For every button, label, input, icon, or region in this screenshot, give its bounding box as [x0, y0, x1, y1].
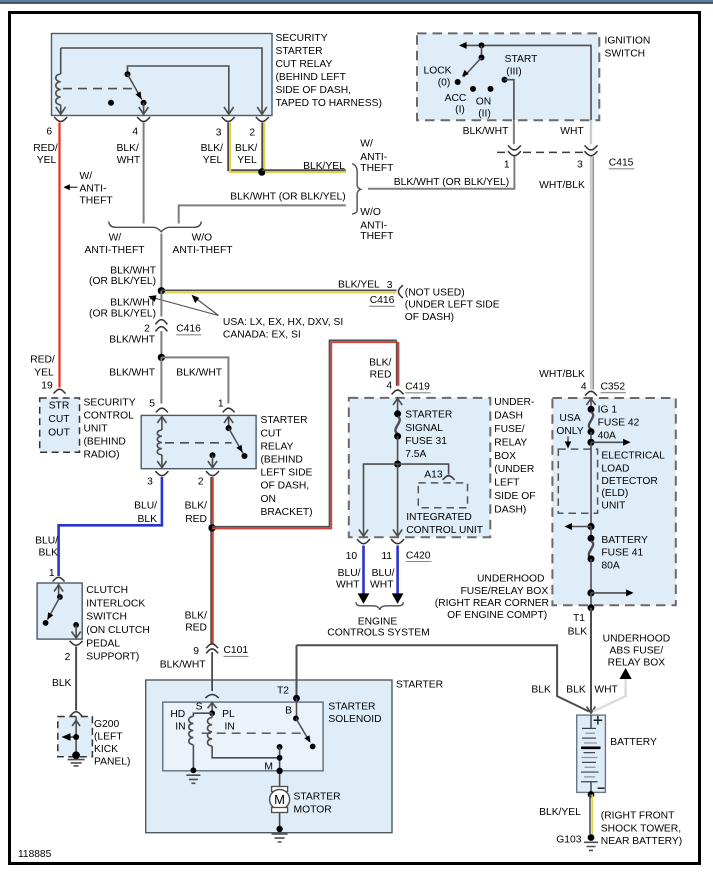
- junction dot with left arrow: [565, 523, 595, 530]
- solenoid ground: [186, 767, 200, 783]
- junction dot BLK/YEL: [258, 168, 265, 175]
- relay switch pivot dot: [125, 71, 131, 77]
- svg-text:SIGNAL: SIGNAL: [405, 423, 443, 434]
- wire BLK clutch to G200: [75, 647, 77, 711]
- svg-text:ANTI-: ANTI-: [360, 220, 387, 231]
- svg-text:FUSE 41: FUSE 41: [601, 548, 643, 559]
- solenoid S connector (dome): [205, 694, 218, 698]
- svg-text:80A: 80A: [601, 560, 619, 571]
- engine controls brace: [356, 602, 404, 610]
- svg-text:WHT: WHT: [560, 126, 584, 137]
- junction dot with right arrow 2: [587, 589, 633, 596]
- svg-text:DASH): DASH): [494, 504, 526, 515]
- svg-text:ELECTRICAL: ELECTRICAL: [601, 451, 665, 462]
- wire BLK T2 down: [296, 645, 298, 698]
- wire BLU/BLK pin3 to clutch switch: [59, 477, 162, 576]
- label W/O ANTI-THEFT (brace right): [172, 233, 233, 257]
- svg-text:C101: C101: [224, 645, 249, 656]
- svg-text:2: 2: [198, 477, 204, 488]
- svg-text:SUPPORT): SUPPORT): [86, 652, 139, 663]
- label A13: [424, 470, 443, 481]
- svg-text:PEDAL: PEDAL: [86, 638, 120, 649]
- svg-text:RED/: RED/: [33, 143, 58, 154]
- svg-text:BLK: BLK: [39, 548, 59, 559]
- svg-text:1: 1: [504, 159, 510, 170]
- starter solenoid box: [163, 702, 323, 771]
- pin number 6: [46, 127, 52, 138]
- svg-text:C416: C416: [370, 295, 395, 306]
- label RED/YEL at unit: [30, 355, 55, 379]
- wire BLK from starter to battery: [297, 645, 590, 711]
- relay2 arm end dot: [242, 453, 248, 459]
- svg-text:2: 2: [65, 652, 71, 663]
- svg-text:LOCK: LOCK: [423, 65, 451, 76]
- starter box: [146, 680, 392, 833]
- svg-text:2: 2: [144, 324, 150, 335]
- svg-text:FUSE/RELAY BOX: FUSE/RELAY BOX: [460, 586, 548, 597]
- svg-text:19: 19: [41, 381, 53, 392]
- svg-text:INTEGRATED: INTEGRATED: [406, 512, 472, 523]
- svg-text:A13: A13: [424, 470, 443, 481]
- label ON (II): [476, 97, 491, 120]
- svg-text:(BEHIND: (BEHIND: [261, 455, 303, 466]
- pin number 19: [41, 381, 53, 392]
- svg-text:M: M: [274, 792, 285, 807]
- M wire down: [279, 747, 281, 789]
- svg-text:(BEHIND: (BEHIND: [84, 437, 126, 448]
- M junction dot: [277, 755, 283, 761]
- pin number 1 clutch: [49, 568, 55, 579]
- svg-text:IG 1: IG 1: [598, 404, 618, 415]
- label BLU/BLK vertical: [35, 536, 58, 559]
- ignition junction dot top: [479, 42, 485, 48]
- svg-text:SECURITY: SECURITY: [276, 33, 328, 44]
- svg-text:PL: PL: [222, 709, 235, 720]
- pin 3 connector: [222, 117, 235, 122]
- svg-text:ON: ON: [476, 97, 491, 108]
- svg-text:5: 5: [149, 398, 155, 409]
- svg-text:ENGINE: ENGINE: [358, 616, 398, 627]
- svg-text:THEFT: THEFT: [360, 163, 394, 174]
- svg-text:NEAR BATTERY): NEAR BATTERY): [601, 836, 682, 847]
- battery negative terminal dot: [588, 791, 595, 798]
- svg-text:BLK/WHT: BLK/WHT: [109, 334, 155, 345]
- label C415 underlined: [609, 158, 635, 169]
- contact dot LOCK: [455, 79, 461, 85]
- svg-text:WHT/BLK: WHT/BLK: [539, 369, 585, 380]
- svg-text:STARTER: STARTER: [396, 680, 443, 691]
- label WHT/BLK lower: [539, 369, 585, 380]
- svg-text:W/: W/: [109, 233, 122, 244]
- label C420 underlined: [406, 551, 432, 562]
- svg-text:BLK/YEL: BLK/YEL: [539, 807, 581, 818]
- wire RED/YEL pin6 down: [58, 123, 60, 388]
- label STARTER SOLENOID: [328, 701, 381, 725]
- svg-text:LOAD: LOAD: [601, 463, 629, 474]
- svg-text:BLK/WHT: BLK/WHT: [160, 660, 206, 671]
- svg-text:BLU/: BLU/: [134, 501, 157, 512]
- pin number 2 C416: [144, 324, 150, 335]
- CLUTCH INTERLOCK SWITCH label: [86, 585, 150, 663]
- svg-text:G103: G103: [556, 834, 581, 845]
- relay coil (pin 6 branch): [56, 48, 66, 114]
- svg-text:USA: USA: [559, 413, 580, 424]
- STR CUT OUT text: [48, 401, 70, 439]
- svg-text:WHT: WHT: [336, 580, 360, 591]
- svg-text:ANTI-THEFT: ANTI-THEFT: [172, 245, 233, 256]
- svg-text:C416: C416: [176, 324, 201, 335]
- label BLK/YEL battery: [539, 807, 581, 818]
- label WHT/BLK upper: [539, 180, 585, 191]
- wire WHT ign to C415: [590, 120, 592, 146]
- svg-text:BLK/WHT: BLK/WHT: [176, 368, 222, 379]
- svg-text:BLK/WHT (OR BLK/YEL): BLK/WHT (OR BLK/YEL): [230, 192, 345, 203]
- svg-text:YEL: YEL: [203, 155, 223, 166]
- svg-text:BLK/: BLK/: [369, 358, 391, 369]
- wire BLK/WHT ign to C415: [513, 120, 515, 146]
- fuse 31 (STARTER SIGNAL): [394, 410, 401, 439]
- pin number 4 C352: [581, 381, 587, 392]
- svg-text:YEL: YEL: [37, 155, 57, 166]
- wire BLK/WHT C101 to solenoid S: [211, 652, 213, 691]
- svg-text:UNDER-: UNDER-: [494, 397, 534, 408]
- battery minus sign: [598, 787, 605, 789]
- top blue banner strip: [0, 0, 713, 4]
- label T1 BLK: [568, 613, 588, 638]
- svg-text:1: 1: [218, 398, 224, 409]
- pin number 3 (relay2): [147, 477, 153, 488]
- svg-text:C419: C419: [405, 382, 430, 393]
- relay2 switch pivot dot: [226, 425, 232, 431]
- svg-text:IN: IN: [175, 721, 185, 732]
- label C416 (vertical) underlined: [176, 324, 201, 335]
- svg-text:WHT: WHT: [117, 155, 141, 166]
- contact dot ON: [488, 86, 494, 92]
- svg-text:BLK/: BLK/: [235, 143, 257, 154]
- label BLK/WHT (OR BLK/YEL) upper: [230, 192, 345, 203]
- svg-text:7.5A: 7.5A: [405, 449, 426, 460]
- svg-text:RED/: RED/: [30, 355, 55, 366]
- relay2 dashed coil link: [165, 442, 232, 444]
- svg-text:(OR BLK/YEL): (OR BLK/YEL): [89, 276, 156, 287]
- svg-text:T1: T1: [573, 613, 585, 624]
- label C419 underlined: [405, 382, 431, 393]
- svg-text:W/O: W/O: [192, 233, 213, 244]
- starter motor ground: [272, 813, 288, 843]
- svg-text:CUT RELAY: CUT RELAY: [276, 59, 333, 70]
- svg-text:BLK/YEL: BLK/YEL: [303, 161, 345, 172]
- label RED/YEL pin6: [33, 143, 58, 166]
- label HD IN: [170, 709, 185, 732]
- svg-text:RED: RED: [370, 370, 392, 381]
- SECURITY CONTROL UNIT label: [84, 397, 136, 460]
- underhood fuse/relay box (dashed): [552, 398, 675, 605]
- svg-text:YEL: YEL: [34, 367, 54, 378]
- relay switch arm: [128, 74, 142, 99]
- junction dot relay feed: [158, 354, 165, 361]
- battery entry arrow: [587, 707, 596, 714]
- svg-text:(UNDER LEFT SIDE: (UNDER LEFT SIDE: [405, 300, 500, 311]
- pin number 1 C415: [504, 159, 510, 170]
- fuse31 entry arrow: [393, 398, 402, 414]
- svg-text:(BEHIND LEFT: (BEHIND LEFT: [276, 72, 347, 83]
- junction dot with right arrow: [587, 439, 630, 446]
- svg-text:THEFT: THEFT: [80, 196, 114, 207]
- svg-text:BLK/: BLK/: [117, 143, 139, 154]
- svg-text:STARTER: STARTER: [294, 792, 341, 803]
- connector A13 (dome): [443, 476, 455, 480]
- G200 ground symbol: [68, 751, 85, 766]
- under-dash fuse/relay box (dashed): [349, 398, 491, 537]
- pin number 3 C415: [577, 159, 583, 170]
- svg-text:BLK: BLK: [138, 514, 158, 525]
- pin 6 connector: [54, 117, 67, 122]
- svg-text:STARTER: STARTER: [328, 701, 375, 712]
- USA ONLY arrow down: [565, 436, 572, 448]
- svg-text:BLK/WHT: BLK/WHT: [463, 126, 509, 137]
- svg-text:(ON CLUTCH: (ON CLUTCH: [86, 625, 150, 636]
- branch right to A13: [398, 464, 449, 474]
- clutch switch arm: [47, 597, 60, 620]
- connector C416 pin3 (bracket): [398, 285, 403, 298]
- label B: [285, 706, 292, 717]
- label T2: [277, 685, 289, 696]
- wire BLK/RED pin2 relay2 down: [211, 477, 213, 643]
- wire BLK/WHT (OR BLK/YEL) C415 pin1 to brace: [368, 157, 514, 189]
- svg-text:(0): (0): [438, 78, 451, 89]
- wire BLK/WHT pin4 down: [143, 123, 145, 224]
- wire through ELD: [590, 442, 592, 526]
- svg-text:BLK/: BLK/: [185, 501, 207, 512]
- label STARTER (box): [396, 680, 443, 691]
- svg-text:CONTROL UNIT: CONTROL UNIT: [406, 525, 484, 536]
- svg-text:UNIT: UNIT: [84, 424, 109, 435]
- svg-text:BOX: BOX: [494, 451, 516, 462]
- connector pin 19 (dome): [54, 389, 66, 393]
- G200 entry arrow up: [72, 717, 80, 756]
- svg-text:BLK/WHT: BLK/WHT: [110, 265, 156, 276]
- svg-text:TAPED TO HARNESS): TAPED TO HARNESS): [276, 98, 382, 109]
- USA/CANADA callout arrows: [148, 295, 218, 316]
- svg-text:3: 3: [216, 128, 222, 139]
- svg-text:INTERLOCK: INTERLOCK: [86, 599, 145, 610]
- svg-text:11: 11: [381, 551, 392, 562]
- svg-text:BLK/WHT: BLK/WHT: [110, 298, 156, 309]
- svg-text:SWITCH: SWITCH: [86, 612, 127, 623]
- connector clutch pin2 (cup): [70, 641, 83, 646]
- pin number 9 C101: [193, 646, 199, 657]
- svg-text:ON: ON: [261, 494, 276, 505]
- svg-text:3: 3: [147, 477, 153, 488]
- svg-text:RELAY BOX: RELAY BOX: [608, 658, 666, 669]
- svg-text:OF DASH): OF DASH): [405, 312, 454, 323]
- label BLK/WHT (OR BLK/YEL) at C415: [394, 177, 509, 188]
- svg-text:40A: 40A: [598, 430, 616, 441]
- svg-text:C415: C415: [609, 158, 634, 169]
- svg-text:ANTI-THEFT: ANTI-THEFT: [84, 245, 145, 256]
- svg-text:BLU/: BLU/: [372, 568, 395, 579]
- battery plus sign: [594, 716, 603, 725]
- wire BLU/WHT pin11: [396, 546, 399, 595]
- label ELECTRICAL LOAD DETECTOR (ELD) UNIT: [601, 451, 665, 512]
- wire fuse42 to junction: [590, 432, 592, 443]
- svg-text:CONTROL: CONTROL: [84, 410, 135, 421]
- branch left to pin 10: [359, 464, 398, 536]
- relay switch top wire to pin 3: [128, 66, 234, 114]
- M terminal dot: [276, 768, 282, 774]
- svg-text:(RIGHT REAR CORNER: (RIGHT REAR CORNER: [435, 598, 549, 609]
- label BLK/RED (pin2): [185, 501, 207, 525]
- battery plates: [581, 715, 601, 793]
- svg-text:G200: G200: [94, 719, 119, 730]
- relay box SECURITY STARTER CUT RELAY: [52, 34, 273, 116]
- svg-text:118885: 118885: [18, 849, 52, 860]
- label W/ ANTI-THEFT (brace left): [84, 233, 145, 257]
- solenoid switch arm: [296, 718, 311, 742]
- svg-text:UNDERHOOD: UNDERHOOD: [603, 633, 671, 644]
- starter motor: [270, 786, 290, 812]
- label S: [196, 702, 203, 713]
- pin number 5: [149, 398, 155, 409]
- svg-text:ACC: ACC: [445, 93, 467, 104]
- G200 left arrow: [62, 733, 80, 741]
- label BLU/WHT pin11: [370, 568, 395, 591]
- connector G200 (dome): [70, 712, 82, 716]
- svg-text:C352: C352: [601, 381, 626, 392]
- wire BLK/YEL to C416 pin3 (not used): [161, 290, 396, 292]
- svg-text:(III): (III): [506, 66, 521, 77]
- svg-text:(ELD): (ELD): [601, 488, 628, 499]
- relay open contact dot: [108, 100, 114, 106]
- svg-text:T2: T2: [277, 685, 289, 696]
- pin 2 connector: [256, 117, 269, 122]
- label BLK/YEL C416: [338, 279, 380, 290]
- svg-text:BATTERY: BATTERY: [601, 535, 648, 546]
- svg-text:BLK/WHT: BLK/WHT: [109, 368, 155, 379]
- svg-text:BLK: BLK: [52, 678, 72, 689]
- starter cut relay box: [141, 415, 256, 468]
- junction dot C416 area: [158, 287, 165, 294]
- svg-text:RELAY: RELAY: [494, 437, 527, 448]
- svg-text:4: 4: [581, 381, 587, 392]
- pin number 11: [381, 551, 392, 562]
- svg-text:CLUTCH: CLUTCH: [86, 585, 128, 596]
- solenoid S dot: [209, 710, 215, 716]
- relay2 pin1 wire with up arrow: [224, 415, 233, 428]
- wire BLK T1 to battery: [590, 608, 592, 713]
- svg-text:M: M: [264, 762, 273, 773]
- STARTER CUT RELAY label: [261, 415, 313, 518]
- svg-text:LEFT SIDE: LEFT SIDE: [261, 468, 313, 479]
- svg-text:BLK: BLK: [531, 685, 551, 696]
- svg-text:(RIGHT FRONT: (RIGHT FRONT: [601, 811, 675, 822]
- pin number 4 C419: [386, 381, 392, 392]
- svg-text:IGNITION: IGNITION: [605, 36, 651, 47]
- svg-text:10: 10: [346, 551, 358, 562]
- pin number 2: [249, 128, 255, 139]
- pin number 10: [346, 551, 358, 562]
- relay2 switch arm: [229, 428, 243, 453]
- UNDERHOOD FUSE/RELAY BOX label: [435, 574, 549, 622]
- svg-text:UNDERHOOD: UNDERHOOD: [477, 574, 545, 585]
- svg-text:BLK/WHT (OR BLK/YEL): BLK/WHT (OR BLK/YEL): [394, 177, 509, 188]
- W/ ANTI-THEFT tag arrow (left): [63, 184, 77, 190]
- svg-text:SWITCH: SWITCH: [605, 49, 646, 60]
- svg-text:6: 6: [46, 127, 52, 138]
- pin number 4: [132, 127, 138, 138]
- branch down to pin 11: [393, 464, 402, 536]
- connector C415 pin1 (two cups): [507, 144, 522, 157]
- label BLK left: [531, 685, 551, 696]
- M contact dot: [277, 744, 283, 750]
- ignition switch box (dashed): [417, 33, 599, 120]
- pin number 2 clutch: [65, 652, 71, 663]
- svg-text:RED: RED: [185, 514, 207, 525]
- wire BLK/WHT junction to pin 5: [160, 357, 162, 403]
- START output wire: [505, 80, 514, 121]
- svg-text:W/O: W/O: [360, 207, 381, 218]
- ELD box (dashed): [558, 449, 597, 513]
- wire BLK/WHT junction to pin 1: [161, 357, 228, 403]
- svg-text:9: 9: [193, 646, 199, 657]
- svg-text:ANTI-: ANTI-: [360, 152, 387, 163]
- label BLK/YEL pin2: [235, 143, 257, 166]
- wire T2 to B contact: [296, 698, 298, 718]
- svg-text:USA: LX, EX, HX, DXV, SI: USA: LX, EX, HX, DXV, SI: [223, 317, 343, 328]
- wire BLK/WHT from C416 to junction2: [160, 331, 162, 357]
- svg-text:CANADA: EX, SI: CANADA: EX, SI: [223, 329, 301, 340]
- label BLK/WHT below C416: [109, 334, 155, 345]
- label START (III): [505, 54, 539, 77]
- wire WHT/BLK C415 pin3 to C352: [591, 157, 593, 390]
- label STARTER SIGNAL FUSE 31 7.5A: [405, 409, 452, 460]
- label BLK/WHT pin5 wire: [109, 368, 155, 379]
- wire BLK/YEL to brace: [262, 170, 346, 172]
- G200 box (dashed): [58, 717, 93, 757]
- C415 dashed separator: [497, 151, 600, 153]
- svg-text:(I): (I): [455, 105, 465, 116]
- HD coil branch: [189, 713, 212, 770]
- svg-text:4: 4: [386, 381, 392, 392]
- svg-text:FUSE/: FUSE/: [494, 424, 524, 435]
- junction dot fuse31 out: [394, 461, 401, 468]
- wire BLU/WHT pin10: [362, 546, 365, 595]
- svg-text:THEFT: THEFT: [360, 231, 394, 242]
- solenoid S entry arrow: [208, 703, 217, 714]
- svg-text:ABS FUSE/: ABS FUSE/: [610, 646, 664, 657]
- label M: [264, 762, 273, 773]
- contact dot START: [502, 77, 508, 83]
- connector C420 pin11 (cup): [391, 539, 404, 544]
- clutch arm end dot: [43, 620, 49, 626]
- svg-text:LEFT: LEFT: [494, 478, 520, 489]
- svg-text:3: 3: [577, 159, 583, 170]
- svg-text:STARTER: STARTER: [405, 409, 452, 420]
- clutch switch pivot: [54, 583, 63, 600]
- label C352 underlined: [601, 381, 627, 392]
- wire BLK/RED branch to C419: [212, 340, 398, 528]
- clutch pin2 contact dot and exit: [72, 622, 81, 638]
- merge brace W/ and W/O (horizontal): [109, 222, 202, 232]
- svg-text:SIDE OF: SIDE OF: [494, 491, 535, 502]
- wire BLK/WHT (OR BLK/YEL) upper horizontal: [179, 205, 346, 223]
- label LOCK (0): [423, 65, 451, 88]
- connector C419 (dome): [392, 390, 404, 394]
- pin number 2 (relay2): [198, 477, 204, 488]
- wire BLK/YEL pin3 down-right: [228, 123, 259, 173]
- connector pin 1 (dome): [223, 408, 235, 412]
- svg-text:PANEL): PANEL): [94, 757, 130, 768]
